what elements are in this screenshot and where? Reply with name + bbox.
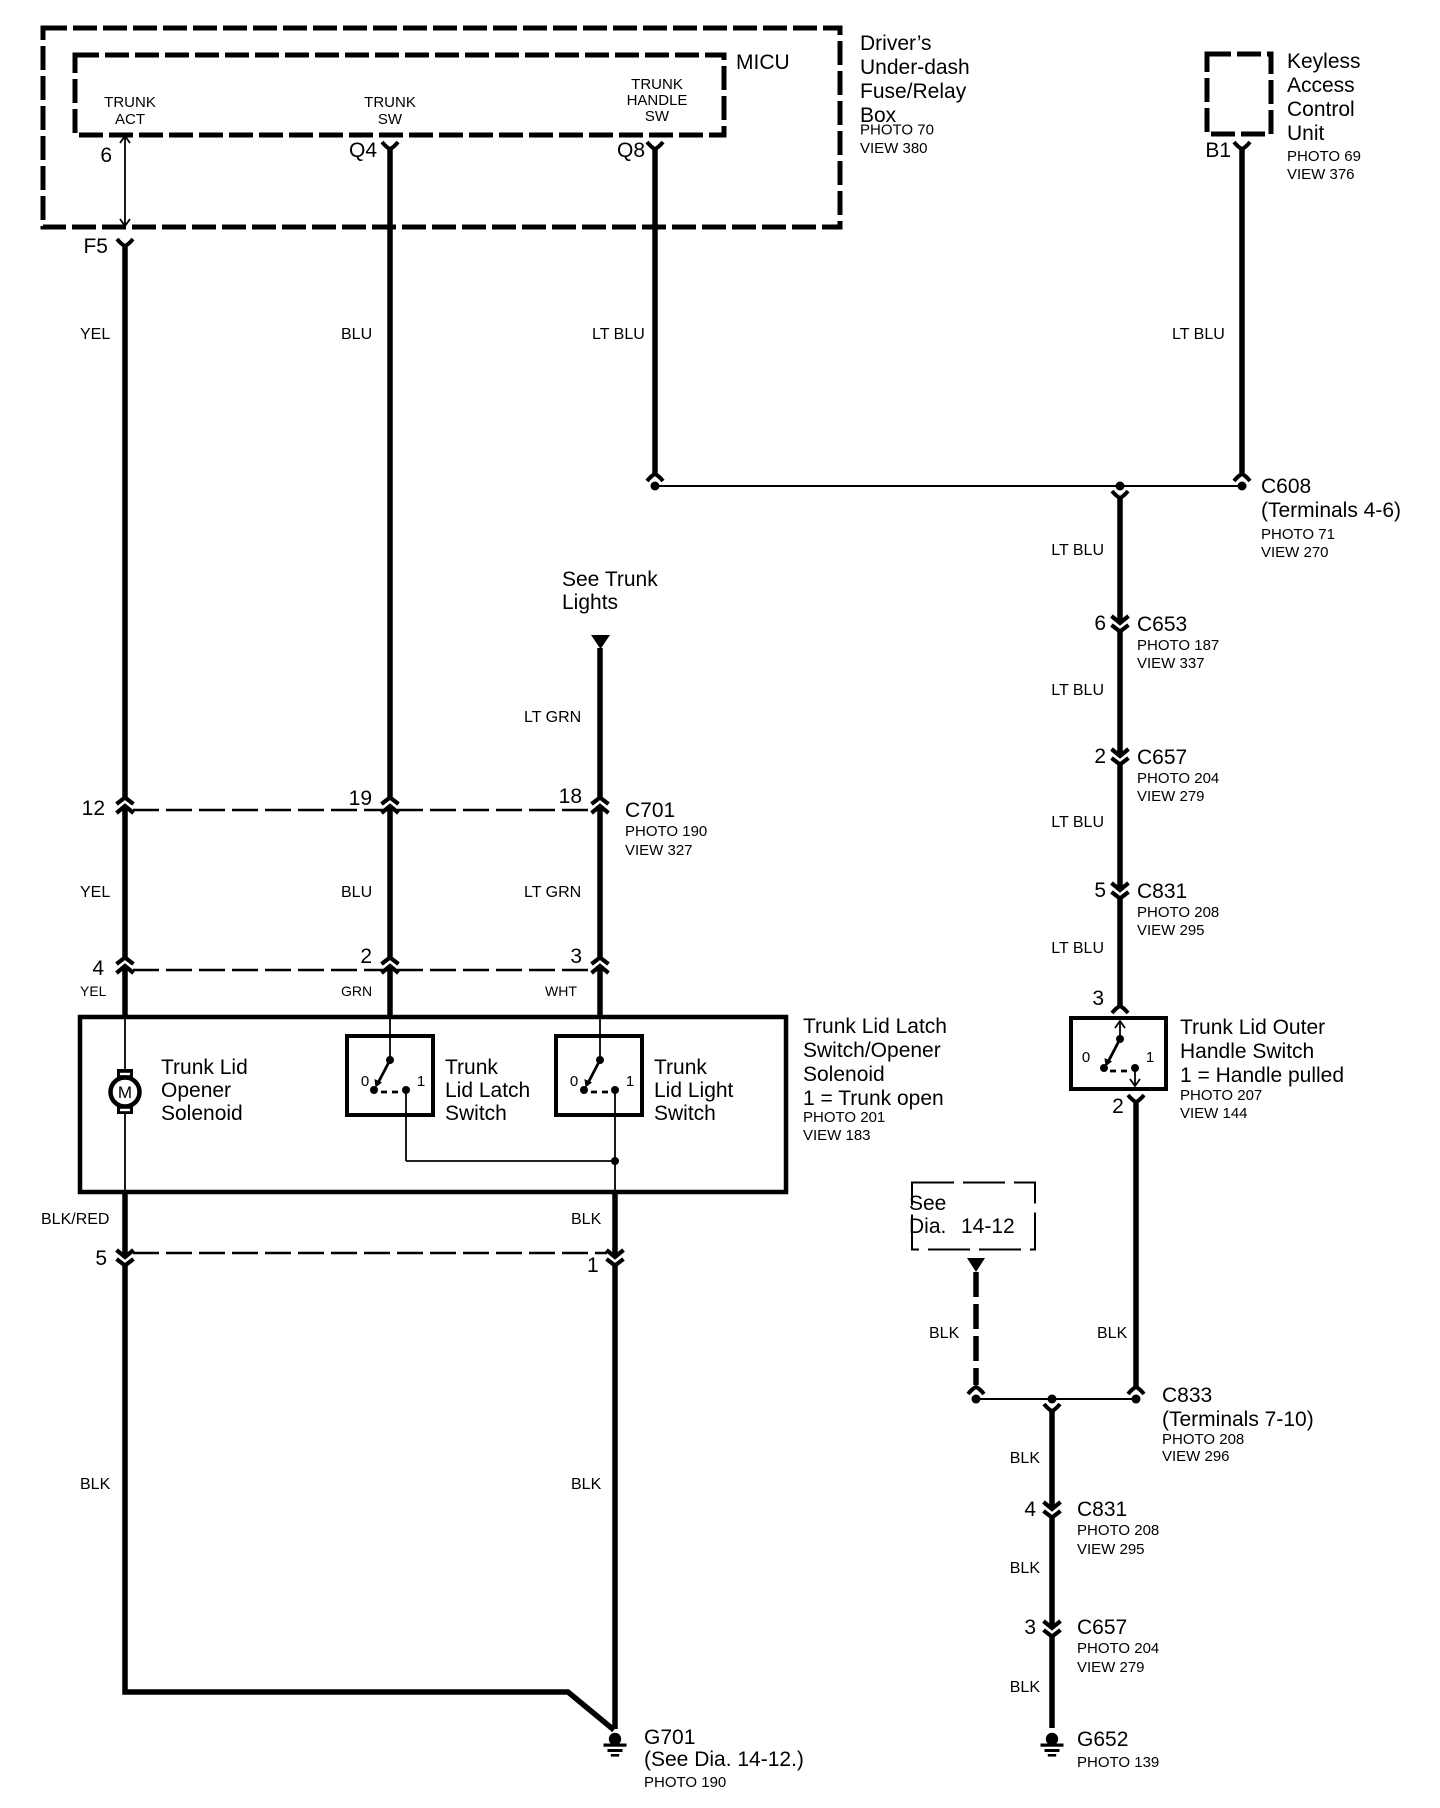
svg-text:TRUNK: TRUNK: [364, 94, 416, 111]
trunk lid latch switch/opener solenoid box: [80, 1017, 786, 1192]
svg-text:2: 2: [1112, 1095, 1124, 1118]
svg-text:Handle Switch: Handle Switch: [1180, 1040, 1314, 1063]
svg-text:6: 6: [1094, 612, 1106, 635]
svg-text:G652: G652: [1077, 1728, 1128, 1751]
connector pin 1: [607, 1250, 624, 1266]
wire BLK/RED (solenoid to pin 5): [122, 1192, 128, 1257]
svg-text:M: M: [118, 1083, 132, 1102]
connector C657 pin 2: [1112, 749, 1129, 765]
svg-text:(See Dia. 14-12.): (See Dia. 14-12.): [644, 1748, 804, 1771]
svg-text:LT BLU: LT BLU: [1051, 940, 1104, 957]
connector pin 2: [382, 958, 399, 974]
connector pin 4: [117, 958, 134, 974]
svg-text:PHOTO 71: PHOTO 71: [1261, 526, 1335, 543]
svg-text:Fuse/Relay: Fuse/Relay: [860, 80, 967, 103]
svg-text:Trunk Lid Outer: Trunk Lid Outer: [1180, 1016, 1325, 1039]
svg-text:Q8: Q8: [617, 139, 645, 162]
svg-text:2: 2: [360, 945, 372, 968]
svg-text:BLK: BLK: [80, 1476, 111, 1493]
svg-text:C833: C833: [1162, 1384, 1212, 1407]
svg-text:GRN: GRN: [341, 983, 372, 999]
svg-text:BLK: BLK: [1010, 1679, 1041, 1696]
svg-text:C653: C653: [1137, 613, 1187, 636]
svg-text:YEL: YEL: [80, 983, 107, 999]
svg-text:VIEW 183: VIEW 183: [803, 1127, 871, 1144]
svg-text:1: 1: [417, 1073, 425, 1090]
svg-text:TRUNK: TRUNK: [631, 76, 683, 93]
connector C608 junction line: [647, 474, 663, 481]
svg-text:PHOTO 208: PHOTO 208: [1077, 1522, 1159, 1539]
svg-text:Switch: Switch: [654, 1102, 716, 1125]
svg-text:YEL: YEL: [80, 326, 110, 343]
svg-text:18: 18: [559, 785, 582, 808]
wire LT BLU (Q8 to C608): [652, 147, 658, 473]
svg-text:VIEW 270: VIEW 270: [1261, 544, 1329, 561]
svg-text:0: 0: [570, 1073, 578, 1090]
wire BLK (pin 1 to G701): [612, 1263, 618, 1729]
off-page arrow from dia 14-12: [967, 1258, 985, 1272]
svg-text:LT BLU: LT BLU: [592, 326, 645, 343]
ground G701: [604, 1733, 627, 1757]
connector C701 pin 19: [382, 798, 399, 814]
svg-text:PHOTO 204: PHOTO 204: [1077, 1640, 1159, 1657]
svg-text:Trunk Lid: Trunk Lid: [161, 1056, 248, 1079]
svg-text:F5: F5: [83, 235, 108, 258]
trunk lid opener solenoid motor M: [111, 1017, 140, 1192]
svg-text:PHOTO 207: PHOTO 207: [1180, 1087, 1262, 1104]
svg-text:6: 6: [100, 144, 112, 167]
dashed connector line (pins 4/2/3): [133, 969, 592, 972]
svg-text:Switch/Opener: Switch/Opener: [803, 1039, 941, 1062]
svg-text:LT BLU: LT BLU: [1172, 326, 1225, 343]
connector pin 3: [592, 958, 609, 974]
svg-text:Access: Access: [1287, 74, 1355, 97]
svg-text:LT GRN: LT GRN: [524, 884, 581, 901]
svg-text:VIEW 327: VIEW 327: [625, 842, 693, 859]
dashed connector line C701 (pins 12/19/18): [133, 809, 592, 812]
svg-text:(Terminals 4-6): (Terminals 4-6): [1261, 499, 1401, 522]
svg-text:PHOTO 70: PHOTO 70: [860, 122, 934, 139]
svg-text:SW: SW: [645, 108, 670, 125]
pin 2 handle switch: [1128, 1095, 1144, 1102]
MICU box (dashed): [75, 55, 724, 135]
wire BLK (light switch to pin 1): [612, 1192, 618, 1257]
wire BLK (pin 5 to G701): [125, 1263, 614, 1730]
wire BLK (handle switch to C833): [1133, 1100, 1139, 1387]
connector C653 pin 6: [1112, 616, 1129, 632]
svg-text:LT GRN: LT GRN: [524, 709, 581, 726]
svg-text:C831: C831: [1137, 880, 1187, 903]
svg-text:5: 5: [1094, 879, 1106, 902]
wire WHT (pin 3 to light switch): [597, 966, 603, 1017]
svg-text:Lights: Lights: [562, 591, 618, 614]
handle switch internals: [1100, 1021, 1140, 1086]
svg-text:BLK/RED: BLK/RED: [41, 1211, 109, 1228]
fuse/relay box (Driver's Under-dash Fuse/Relay Box, dashed): [43, 28, 840, 227]
svg-text:VIEW 295: VIEW 295: [1137, 922, 1205, 939]
junction wire inside box (latch to light switch common): [406, 1160, 615, 1162]
svg-text:PHOTO 69: PHOTO 69: [1287, 148, 1361, 165]
svg-text:LT BLU: LT BLU: [1051, 542, 1104, 559]
svg-text:Solenoid: Solenoid: [161, 1102, 243, 1125]
svg-text:BLK: BLK: [571, 1476, 602, 1493]
svg-text:Lid Light: Lid Light: [654, 1079, 734, 1102]
svg-text:PHOTO 204: PHOTO 204: [1137, 770, 1219, 787]
svg-text:1: 1: [626, 1073, 634, 1090]
see dia. 14-12 reference box (dashed): [912, 1183, 1035, 1250]
svg-text:PHOTO 187: PHOTO 187: [1137, 637, 1219, 654]
svg-text:3: 3: [570, 945, 582, 968]
trunk lid light switch box: [556, 1036, 642, 1115]
svg-text:PHOTO 208: PHOTO 208: [1162, 1431, 1244, 1448]
svg-text:1 = Handle pulled: 1 = Handle pulled: [1180, 1064, 1344, 1087]
svg-text:BLK: BLK: [1097, 1325, 1128, 1342]
latch switch internals: [370, 1017, 410, 1161]
connector C831 pin 5: [1112, 883, 1129, 899]
svg-text:Lid Latch: Lid Latch: [445, 1079, 530, 1102]
svg-text:4: 4: [1024, 1498, 1036, 1521]
off-page arrow trunk lights: [591, 635, 610, 649]
svg-text:BLU: BLU: [341, 884, 372, 901]
svg-text:PHOTO 201: PHOTO 201: [803, 1109, 885, 1126]
svg-text:LT BLU: LT BLU: [1051, 814, 1104, 831]
svg-text:SW: SW: [378, 111, 403, 128]
svg-text:C608: C608: [1261, 475, 1311, 498]
svg-text:Keyless: Keyless: [1287, 50, 1361, 73]
svg-text:ACT: ACT: [115, 111, 145, 128]
wire LT BLU (C831 to handle switch pin 3): [1117, 896, 1123, 1006]
wire YEL (F5 to C701 pin 12): [122, 244, 128, 798]
svg-text:BLK: BLK: [571, 1211, 602, 1228]
svg-text:Trunk: Trunk: [445, 1056, 498, 1079]
svg-text:MICU: MICU: [736, 51, 790, 74]
wire BLK dashed (to C833): [973, 1272, 979, 1385]
connector C833 junction line: [976, 1398, 1136, 1400]
svg-text:1: 1: [1146, 1049, 1154, 1066]
svg-text:1: 1: [587, 1254, 599, 1277]
svg-text:0: 0: [1082, 1049, 1090, 1066]
svg-text:PHOTO 190: PHOTO 190: [644, 1774, 726, 1791]
svg-text:VIEW 279: VIEW 279: [1077, 1659, 1145, 1676]
svg-text:VIEW 376: VIEW 376: [1287, 166, 1355, 183]
svg-text:BLK: BLK: [1010, 1560, 1041, 1577]
svg-text:PHOTO 208: PHOTO 208: [1137, 904, 1219, 921]
keyless access control unit box (dashed): [1207, 54, 1271, 134]
svg-text:B1: B1: [1205, 139, 1231, 162]
wire YEL (C701-12 to pin 4): [122, 806, 128, 958]
svg-text:3: 3: [1092, 987, 1104, 1010]
svg-text:4: 4: [92, 957, 104, 980]
wire LT BLU (B1 to C608): [1239, 147, 1245, 473]
svg-text:BLK: BLK: [929, 1325, 960, 1342]
svg-text:12: 12: [82, 797, 105, 820]
svg-text:TRUNK: TRUNK: [104, 94, 156, 111]
svg-text:VIEW 144: VIEW 144: [1180, 1105, 1248, 1122]
svg-text:VIEW 295: VIEW 295: [1077, 1541, 1145, 1558]
svg-text:(Terminals 7-10): (Terminals 7-10): [1162, 1408, 1314, 1431]
pin 6 internal link arrow (MICU TRUNK ACT to F5): [120, 136, 130, 226]
svg-text:C701: C701: [625, 799, 675, 822]
wire YEL (pin 4 to solenoid box): [122, 966, 128, 1017]
svg-text:See: See: [909, 1192, 946, 1215]
svg-text:LT BLU: LT BLU: [1051, 682, 1104, 699]
wire BLK (C833 to C831 pin 4): [1049, 1409, 1055, 1509]
wire BLK (C657 to G652): [1049, 1634, 1055, 1728]
wire LT GRN (trunk lights to C701 pin 18): [597, 648, 603, 798]
trunk lid outer handle switch box: [1071, 1018, 1166, 1089]
svg-text:BLK: BLK: [1010, 1450, 1041, 1467]
svg-text:WHT: WHT: [545, 983, 577, 999]
wire GRN (pin 2 to latch switch): [387, 966, 393, 1017]
svg-text:PHOTO 190: PHOTO 190: [625, 823, 707, 840]
svg-text:Opener: Opener: [161, 1079, 231, 1102]
connector C657 pin 3: [1044, 1621, 1061, 1637]
svg-text:14-12: 14-12: [961, 1215, 1015, 1238]
wire LT BLU (C653 to C657): [1117, 629, 1123, 756]
svg-text:VIEW 296: VIEW 296: [1162, 1448, 1230, 1465]
svg-text:Trunk: Trunk: [654, 1056, 707, 1079]
svg-text:G701: G701: [644, 1726, 695, 1749]
svg-text:Unit: Unit: [1287, 122, 1325, 145]
svg-text:Under-dash: Under-dash: [860, 56, 970, 79]
svg-text:Q4: Q4: [349, 139, 377, 162]
connector pin 5: [117, 1250, 134, 1266]
svg-text:3: 3: [1024, 1616, 1036, 1639]
svg-text:PHOTO 139: PHOTO 139: [1077, 1754, 1159, 1771]
svg-text:See Trunk: See Trunk: [562, 568, 658, 591]
connector C701 pin 12: [117, 798, 134, 814]
svg-text:YEL: YEL: [80, 884, 110, 901]
svg-text:0: 0: [361, 1073, 369, 1090]
light switch internals: [580, 1017, 619, 1161]
svg-text:C657: C657: [1077, 1616, 1127, 1639]
connector C701 pin 18: [592, 798, 609, 814]
ground G652: [1041, 1733, 1064, 1757]
wire BLK (C831 to C657 pin 3): [1049, 1515, 1055, 1628]
trunk lid latch switch box: [347, 1036, 433, 1115]
svg-text:VIEW 337: VIEW 337: [1137, 655, 1205, 672]
svg-text:Driver’s: Driver’s: [860, 32, 932, 55]
svg-text:5: 5: [95, 1247, 107, 1270]
dashed connector line (pins 5/1): [133, 1252, 607, 1255]
svg-text:19: 19: [349, 787, 372, 810]
svg-text:C831: C831: [1077, 1498, 1127, 1521]
wire BLU (Q4 to C701 pin 19): [387, 147, 393, 798]
connector C831 pin 4: [1044, 1502, 1061, 1518]
svg-text:Control: Control: [1287, 98, 1355, 121]
svg-text:VIEW 279: VIEW 279: [1137, 788, 1205, 805]
svg-text:C657: C657: [1137, 746, 1187, 769]
wire LT GRN (C701-18 to pin 3): [597, 806, 603, 958]
svg-text:Dia.: Dia.: [909, 1215, 946, 1238]
svg-text:2: 2: [1094, 745, 1106, 768]
svg-text:HANDLE: HANDLE: [627, 92, 688, 109]
wire LT BLU (C657 to C831): [1117, 762, 1123, 890]
svg-text:Solenoid: Solenoid: [803, 1063, 885, 1086]
svg-text:VIEW 380: VIEW 380: [860, 140, 928, 157]
wire LT BLU (C608 to C653): [1117, 496, 1123, 623]
wire BLU (C701-19 to pin 2): [387, 806, 393, 958]
svg-text:BLU: BLU: [341, 326, 372, 343]
svg-text:Switch: Switch: [445, 1102, 507, 1125]
svg-text:1 = Trunk open: 1 = Trunk open: [803, 1087, 944, 1110]
svg-text:Trunk Lid Latch: Trunk Lid Latch: [803, 1015, 947, 1038]
